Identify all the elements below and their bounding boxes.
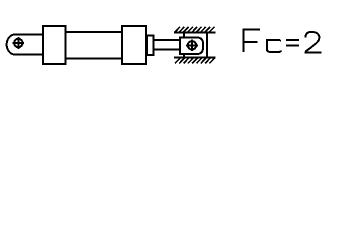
top support hatching (175, 27, 214, 32)
label letter c (267, 40, 281, 52)
right rod eye (180, 38, 203, 55)
left rod eye bracket (7, 35, 43, 55)
piston rod top line (153, 39, 181, 41)
clevis plate (206, 33, 208, 58)
left pin cross horizontal (13, 42, 25, 44)
cylinder front cap (122, 26, 146, 64)
right pin circle (188, 41, 196, 49)
cylinder rear cap (43, 26, 66, 64)
clevis post bottom (183, 54, 185, 58)
right pin cross vertical (191, 40, 193, 52)
clevis post top (183, 33, 185, 38)
left pin cross vertical (17, 37, 19, 49)
left pin circle (14, 39, 22, 47)
cylinder tube top line (66, 31, 124, 33)
top support line (174, 32, 216, 34)
rod bushing (147, 35, 154, 55)
bottom support line (174, 57, 216, 59)
bottom support hatching (175, 58, 214, 63)
label equals sign (286, 40, 299, 45)
cylinder tube bottom line (66, 58, 124, 60)
piston rod bottom line (153, 48, 181, 50)
label digit 2 (304, 32, 321, 52)
right pin cross horizontal (186, 44, 198, 46)
label Fc=2 letter F (242, 30, 260, 52)
